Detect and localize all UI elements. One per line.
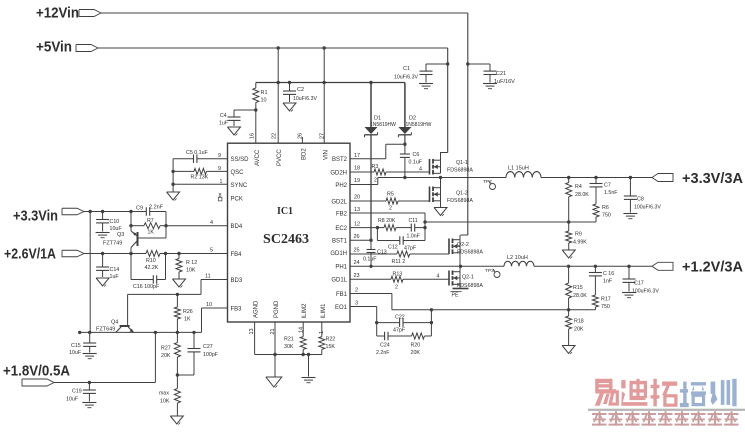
svg-text:R22: R22 [326,337,336,343]
capacitor C16 1nF [589,266,614,295]
svg-text:C14: C14 [110,267,120,273]
resistor R12 10K [173,252,198,288]
svg-text:BD2: BD2 [302,148,308,160]
wire FB2 pin13 [350,207,425,213]
svg-text:10uF: 10uF [69,350,82,356]
svg-text:PGND: PGND [274,300,280,318]
svg-text:750: 750 [602,213,611,219]
svg-text:30K: 30K [284,344,294,350]
wire +3.3V output row [541,176,652,179]
svg-text:4: 4 [210,220,213,226]
svg-text:1nF: 1nF [603,279,613,285]
svg-text:Q1-2: Q1-2 [456,191,468,197]
svg-text:0.1uF: 0.1uF [363,257,377,263]
wire BD2 pin26 stub [301,137,303,143]
resistor R4 28.0K [566,178,590,223]
wire +12V rail top [101,13,469,66]
svg-text:1: 1 [220,179,223,185]
ground SS/QSC [167,159,180,201]
svg-text:C12: C12 [388,245,398,251]
node +3.3Vin input label [13,208,58,225]
svg-text:+2.6V/1A: +2.6V/1A [4,246,56,263]
resistor R2 13K [171,166,227,181]
svg-text:C17: C17 [634,281,644,287]
svg-text:SYNC: SYNC [231,183,248,189]
svg-text:R10: R10 [146,258,156,264]
svg-text:EO1: EO1 [335,305,348,311]
svg-text:PH1: PH1 [335,265,347,271]
svg-text:FZT749: FZT749 [103,241,122,247]
capacitor C5 0.1uF [173,150,227,163]
svg-text:ILIM1: ILIM1 [321,303,327,319]
ground Q1-2 source [434,208,447,217]
svg-text:R9: R9 [575,232,582,238]
wire PH1 pin24 [350,260,504,268]
svg-text:R5: R5 [387,192,394,198]
svg-text:13: 13 [354,207,360,213]
capacitor C21 1uF/16V [468,64,515,89]
svg-text:FZT649: FZT649 [96,327,115,333]
svg-text:FB4: FB4 [231,252,243,258]
svg-text:+3.3Vin: +3.3Vin [13,208,58,225]
wire AGND pin13 [254,322,256,355]
svg-text:C15: C15 [71,343,81,349]
svg-text:C5 0.1uF: C5 0.1uF [186,150,209,156]
resistor R1 10 [253,83,268,112]
diode D1 1N5819HW [365,83,397,241]
op-amp U1 IC1 SC2463 controller [228,143,351,322]
wire +3.3Vin [84,210,133,213]
resistor R28 max 10K [159,375,183,425]
resistor R27 20K [161,332,180,376]
svg-text:27: 27 [320,133,326,139]
capacitor C24 2.2nF and resistor R20 20K [376,323,431,356]
svg-text:FDS6898A: FDS6898A [457,250,483,256]
wire +1.8V [54,332,155,384]
capacitor C9 2.2nF [131,205,166,226]
svg-text:FDS6898A: FDS6898A [447,198,473,204]
svg-text:R4: R4 [575,184,582,190]
svg-text:100uF/6.3V: 100uF/6.3V [632,289,659,295]
wire Q4 emitter rail [78,331,202,334]
svg-text:C27: C27 [203,344,213,350]
svg-text:23: 23 [354,273,360,279]
wire SYNC [171,179,227,186]
svg-text:20K: 20K [161,353,171,359]
wire VIN pin27 [323,48,325,143]
svg-text:+1.8V/0.5A: +1.8V/0.5A [3,363,70,380]
ground PGND bars [302,355,316,383]
wire bottom gnd rail [255,353,322,356]
svg-text:BST1: BST1 [332,239,348,245]
svg-text:25: 25 [354,248,360,254]
svg-text:C13: C13 [377,250,387,256]
svg-text:FDS6898A: FDS6898A [447,168,473,174]
svg-text:4: 4 [437,274,440,280]
svg-text:10uF: 10uF [66,397,79,403]
svg-text:FB3: FB3 [231,307,243,313]
svg-text:Q4: Q4 [111,320,118,326]
svg-text:GD1L: GD1L [331,278,347,284]
transistor Q4 FZT649 [96,294,134,332]
ground PE Q2-1 source [451,289,469,299]
svg-text:28.0K: 28.0K [573,293,587,299]
svg-text:QSC: QSC [231,170,245,176]
resistor R9 4.99K [562,222,587,259]
svg-text:C 16: C 16 [603,271,614,277]
capacitor C14 1uF [96,254,119,287]
svg-text:R21: R21 [284,337,294,343]
svg-text:11: 11 [205,274,211,280]
svg-text:26: 26 [298,133,304,139]
wire +2.6V row [84,252,146,255]
watermark logo [588,379,745,426]
svg-text:AGND: AGND [254,300,260,318]
svg-text:R1: R1 [261,90,268,96]
connector +3.3Vin [62,208,84,215]
svg-text:Q2-2: Q2-2 [457,242,469,248]
svg-text:10uF/6.3V: 10uF/6.3V [394,75,418,81]
connector +12Vin [79,10,101,17]
svg-text:4: 4 [419,167,422,173]
svg-text:1.0nF: 1.0nF [407,234,420,240]
wire +5V down to Q1-1 drain [440,64,448,153]
svg-text:C6: C6 [413,152,420,158]
ground AGND triangle [266,355,282,388]
svg-text:R7: R7 [147,218,154,224]
svg-text:R18: R18 [574,319,584,325]
svg-text:R27: R27 [161,346,171,352]
svg-text:+5Vin: +5Vin [36,39,72,56]
wire FB4 pin5 [166,248,228,254]
svg-text:L2 10uH: L2 10uH [507,255,528,261]
node +2.6V/1A input label [4,246,56,263]
svg-text:D2: D2 [409,116,416,122]
capacitor C15 10uF [69,332,97,358]
svg-text:C8: C8 [637,197,644,203]
svg-text:1uF: 1uF [219,121,228,127]
svg-text:10K: 10K [186,268,196,274]
svg-text:2: 2 [389,206,392,212]
transistor Q2-2 FDS6898A [449,235,483,266]
wire +5V rail [98,46,449,65]
svg-text:D1: D1 [374,116,381,122]
inductor L2 10uH [504,255,534,266]
node +1.2V/3A output label [682,259,743,276]
svg-text:C4: C4 [220,113,227,119]
resistor R6 750 [593,204,611,222]
capacitor C2 10uF/6.3V [283,83,317,112]
svg-text:L1 15uH: L1 15uH [508,166,529,172]
connector +5Vin [76,45,98,52]
svg-text:2: 2 [395,285,398,291]
transistor Q1-1 FDS6898A [430,153,474,175]
svg-text:9: 9 [218,153,221,159]
svg-text:12: 12 [354,222,360,228]
svg-text:10K: 10K [160,399,170,405]
svg-text:R15: R15 [573,285,583,291]
connector +3.3V output [652,174,673,182]
svg-text:C1: C1 [403,66,410,72]
capacitor C7 1.5nF [590,178,619,205]
svg-text:R2 13K: R2 13K [191,175,209,181]
svg-text:1.5nF: 1.5nF [604,190,618,196]
svg-text:C21: C21 [496,71,506,77]
svg-text:+12Vin: +12Vin [36,5,79,22]
pin numbers bottom [249,327,325,335]
svg-text:PE: PE [452,293,460,299]
svg-text:10: 10 [261,98,267,104]
svg-text:R17: R17 [601,297,611,303]
svg-text:R26: R26 [183,309,193,315]
wire BD3 pin11 [128,274,228,297]
inductor L1 15uH [506,166,541,178]
svg-text:100uF/6.3V: 100uF/6.3V [634,205,661,211]
resistor R8 20K comp [350,218,411,231]
capacitor C22 47pF [375,310,433,336]
svg-text:SS/SD: SS/SD [231,157,250,163]
svg-text:BST2: BST2 [332,157,348,163]
svg-text:24: 24 [354,260,360,266]
connector +2.6V [62,250,84,257]
node TP3 test point [485,268,500,278]
svg-text:2.2nF: 2.2nF [376,350,390,356]
node TP2 test point [483,179,496,190]
resistor R3 2 gate drive [350,164,430,184]
pin 8 PCK stub [218,193,222,201]
svg-text:FB1: FB1 [336,292,348,298]
svg-text:+3.3V/3A: +3.3V/3A [682,170,743,187]
svg-text:BD3: BD3 [231,278,243,284]
wire +3.3V to Q4 rail [89,212,91,333]
svg-text:9: 9 [218,166,221,172]
svg-text:3: 3 [355,301,358,307]
connector +1.2V output [652,262,673,270]
node +3.3V/3A output label [682,170,743,187]
wire BST2 pin17 [350,143,407,160]
svg-text:8: 8 [219,193,222,199]
svg-text:16: 16 [250,133,256,139]
capacitor C13 0.1uF bootstrap [363,240,387,266]
svg-text:R11 2: R11 2 [392,259,406,265]
svg-text:0.1uF: 0.1uF [409,160,423,166]
svg-text:1uF/16V: 1uF/16V [494,79,515,85]
svg-text:750: 750 [601,304,610,310]
wire PVCC pin22 [277,48,279,143]
resistor R13 2 gate drive [350,272,449,291]
wire PGND pin21 [273,322,276,356]
svg-text:R3: R3 [372,164,379,170]
wire +1.2V output row [534,265,652,268]
svg-text:IC1: IC1 [277,206,293,217]
resistor R10 42.2K [145,251,168,272]
svg-text:AVCC: AVCC [255,149,261,166]
svg-text:26: 26 [354,234,360,240]
svg-text:GD2H: GD2H [330,171,347,177]
svg-text:5: 5 [210,248,213,254]
svg-text:18: 18 [354,166,360,172]
svg-text:10: 10 [206,302,212,308]
svg-text:R20: R20 [411,343,421,349]
wire FB1 long line [392,308,596,311]
svg-text:SC2463: SC2463 [263,232,309,247]
svg-text:17: 17 [354,153,360,159]
svg-text:GD2L: GD2L [331,200,347,206]
wire EO1 pin3 [350,301,377,323]
resistor R21 30K [284,322,306,356]
svg-text:15K: 15K [326,344,336,350]
svg-text:EC2: EC2 [335,226,347,232]
svg-text:C9: C9 [136,206,143,212]
svg-text:C24: C24 [380,343,390,349]
svg-text:1uF: 1uF [110,274,120,280]
svg-text:C7: C7 [604,183,611,189]
capacitor C10 10uF [96,212,123,238]
resistor R17 750 [592,295,610,310]
capacitor C8 100uF/6.3V output [623,178,661,219]
resistor R5 2 gate drive [350,192,430,212]
resistor R15 28.0K [566,266,588,310]
svg-text:max: max [159,391,169,397]
svg-text:2: 2 [374,178,377,184]
svg-text:FB2: FB2 [336,212,348,218]
resistor R22 15K [319,322,336,355]
svg-text:42.2K: 42.2K [145,265,159,271]
node +1.8V/0.5A input label [3,363,70,380]
svg-text:Q1-1: Q1-1 [456,160,468,166]
svg-text:PVCC: PVCC [277,149,283,166]
resistor R26 1K [174,294,192,332]
svg-text:47pF: 47pF [404,246,417,252]
resistor R18 20K [562,310,584,354]
svg-text:TP3: TP3 [485,268,494,274]
capacitor C6 0.1uF bootstrap [400,144,423,177]
connector +1.8V [22,379,54,386]
svg-text:R13: R13 [393,272,403,278]
capacitor C4 1uF [219,110,256,136]
svg-text:R8 20K: R8 20K [378,218,396,224]
node +5Vin input label [36,39,72,56]
svg-text:C11: C11 [409,218,418,224]
svg-text:+1.2V/3A: +1.2V/3A [682,259,743,276]
capacitor C17 100uF/6.3V output [622,266,659,297]
svg-text:ILIM2: ILIM2 [302,303,308,319]
wire FB2 comp line [425,220,596,223]
svg-text:PCK: PCK [231,197,243,203]
resistor R11 2 [350,248,449,266]
capacitor C16 100pF [131,254,166,291]
svg-text:GD1H: GD1H [330,251,347,257]
transistor Q2-1 FDS6898A [449,266,483,289]
svg-text:20: 20 [354,195,360,201]
svg-text:1K: 1K [184,317,191,323]
wire phase node 1 row [378,176,506,179]
pin numbers top [250,133,326,139]
node +12Vin input label [36,5,79,22]
svg-text:1N5819HW: 1N5819HW [370,122,396,128]
svg-text:VIN: VIN [324,150,330,160]
svg-text:100pF: 100pF [203,352,219,358]
svg-text:1N5819HW: 1N5819HW [406,122,432,128]
svg-text:4.99K: 4.99K [573,240,587,246]
svg-text:28.0K: 28.0K [575,192,589,198]
svg-text:C10: C10 [110,219,120,225]
wire FB1 pin2 [350,288,392,310]
svg-text:PH2: PH2 [335,183,347,189]
wire +12V down to Q2-2 drain [461,64,468,235]
wire FB3 pin10 [202,302,228,332]
capacitor C12 47pF comp [377,213,426,252]
svg-text:C19: C19 [72,389,82,395]
svg-text:R6: R6 [602,205,609,211]
capacitor C1 10uF/6.3V [394,64,448,89]
resistor R7 1K [129,212,167,236]
svg-text:10uF/6.3V: 10uF/6.3V [293,96,317,102]
svg-text:2: 2 [355,288,358,294]
svg-text:47pF: 47pF [393,328,406,334]
svg-text:C16 100pF: C16 100pF [133,284,160,290]
svg-text:Q2-1: Q2-1 [462,275,474,281]
svg-text:C22: C22 [395,314,405,320]
transistor Q3 FZT749 [103,226,166,254]
wire BD4 pin4 [166,220,228,226]
svg-text:C2: C2 [297,87,304,93]
svg-text:R 12: R 12 [186,260,197,266]
capacitor C11 1.0nF [407,218,426,240]
transistor Q1-2 FDS6898A [430,178,474,208]
wire BST1 pin26 [350,234,373,242]
capacitor C19 10uF [66,383,96,408]
svg-text:19: 19 [354,178,360,184]
capacitor C27 100pF [177,332,218,375]
svg-text:Q3: Q3 [117,232,124,238]
diode D2 1N5819HW [398,83,431,145]
wire PH2 pin19 [350,178,378,185]
svg-text:2.2nF: 2.2nF [149,205,164,211]
svg-text:20K: 20K [411,350,421,356]
svg-text:20K: 20K [574,327,584,333]
wire AVCC pin16 [255,110,257,143]
svg-text:22: 22 [272,133,278,139]
svg-text:1K: 1K [148,230,155,236]
svg-text:BD4: BD4 [231,224,243,230]
wire VCC rail to diodes [256,81,405,84]
